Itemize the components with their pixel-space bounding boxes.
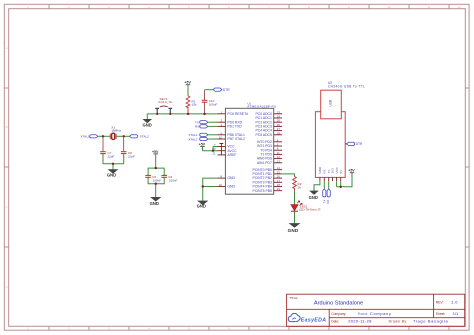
svg-text:GND: GND (143, 122, 152, 127)
svg-text:GND: GND (227, 185, 235, 189)
U1 right pin names (252, 112, 272, 193)
svg-text:22pF: 22pF (106, 154, 114, 158)
U2 bottom pin stubs (320, 177, 341, 181)
svg-text:21: 21 (212, 151, 216, 155)
title block text (289, 296, 458, 324)
svg-text:22: 22 (219, 183, 223, 187)
net port XTAL1 (mcu) (189, 133, 218, 137)
svg-text:10: 10 (219, 136, 223, 140)
svg-text:22pF: 22pF (127, 154, 135, 158)
net port XTAL1 (crystal left) (81, 135, 98, 139)
svg-text:DTR: DTR (356, 142, 363, 146)
svg-text:Your Company: Your Company (358, 311, 392, 316)
svg-text:XTAL1: XTAL1 (81, 135, 90, 139)
IC U1 body (225, 108, 273, 194)
svg-text:PD1 TXD: PD1 TXD (227, 125, 242, 129)
wire port to crystal (98, 135, 110, 137)
svg-text:PCINT5 PB5: PCINT5 PB5 (252, 189, 272, 193)
wire crystal to right port (117, 135, 130, 137)
+5V at VCC (199, 143, 206, 151)
svg-text:REV:: REV: (436, 300, 444, 304)
svg-text:10k: 10k (192, 103, 197, 107)
net port XTAL2 (crystal right) (130, 135, 150, 139)
svg-text:GND: GND (227, 176, 235, 180)
wire GND pins 8/22 (203, 178, 218, 201)
svg-text:1/1: 1/1 (453, 311, 458, 316)
wire PB1 to R2 (282, 174, 294, 177)
svg-text:Company:: Company: (331, 312, 346, 316)
svg-text:100nF: 100nF (153, 178, 162, 182)
svg-text:+5V: +5V (152, 150, 159, 154)
node U2 5V (340, 186, 342, 188)
svg-text:+5V: +5V (348, 169, 355, 173)
svg-text:DTR: DTR (223, 88, 230, 92)
connector U2 usb box (321, 90, 342, 119)
svg-text:2020-11-28: 2020-11-28 (348, 319, 372, 324)
net port XTAL2 (mcu) (189, 137, 218, 141)
wire R2 to LED1 (294, 191, 296, 205)
svg-text:AREF: AREF (227, 153, 236, 157)
net port DTR (top) (214, 88, 230, 92)
svg-text:Drawn By:: Drawn By: (389, 319, 408, 323)
svg-text:GND: GND (309, 195, 318, 200)
node R1/reset (187, 113, 189, 115)
capacitor C10 (202, 90, 218, 114)
svg-text:RX: RX (323, 169, 327, 173)
svg-text:GND: GND (107, 172, 116, 177)
wire crystal caps (103, 136, 124, 151)
svg-text:Sheet:: Sheet: (436, 312, 446, 316)
node crystal right (123, 135, 125, 137)
U1 left pin names (227, 112, 248, 189)
svg-text:1.0: 1.0 (451, 300, 458, 305)
svg-text:PB7 XTAL2: PB7 XTAL2 (227, 137, 245, 141)
capacitor C6 (161, 175, 177, 182)
svg-text:19: 19 (277, 187, 281, 191)
ground (C9/C6) (151, 198, 160, 201)
title block (287, 294, 465, 326)
svg-text:PC6 RESET#: PC6 RESET# (227, 112, 248, 116)
svg-text:CH340G USB To TTL: CH340G USB To TTL (328, 84, 365, 88)
capacitor C7 (100, 151, 114, 164)
svg-text:Arduino Standalone: Arduino Standalone (314, 301, 363, 307)
node crystal left (102, 135, 104, 137)
svg-text:AIN1 PD7: AIN1 PD7 (257, 161, 272, 165)
wire caps to gnd (103, 164, 124, 170)
ground (under U1) (198, 201, 207, 205)
resistor R2 (293, 177, 297, 191)
node loop bottom (155, 183, 157, 185)
crystal X1 (110, 126, 121, 140)
svg-text:12: 12 (457, 5, 461, 9)
svg-text:GND: GND (318, 166, 322, 174)
wire U2 rx tx (324, 181, 328, 189)
ground (crystal caps) (109, 170, 117, 173)
capacitor C9 (145, 175, 161, 182)
svg-text:PC5 ADC5: PC5 ADC5 (255, 133, 272, 137)
svg-text:RX: RX (326, 199, 330, 203)
wire decoupling loop (148, 168, 164, 197)
U2 DTR pin stub (345, 143, 346, 145)
+5V at C9/C6 (152, 150, 159, 168)
U1 right pin numbers (277, 110, 281, 191)
svg-text:Tiago Basaglia: Tiago Basaglia (413, 319, 449, 324)
svg-text:5V: 5V (339, 170, 343, 174)
capacitor C8 (121, 151, 135, 164)
svg-text:Date:: Date: (331, 319, 339, 323)
svg-text:XTAL2: XTAL2 (140, 135, 149, 139)
+5V at R1 (185, 81, 192, 96)
wire AVCC/AREF tie (220, 144, 224, 155)
svg-text:ATMEGA328P-PU: ATMEGA328P-PU (247, 105, 276, 109)
U1 right pin stubs (274, 114, 282, 191)
net port TX (U2) (322, 189, 326, 203)
ground (LED) (290, 224, 299, 228)
resistor R1 (186, 96, 190, 114)
+5V at U2 (348, 169, 355, 173)
node GND junction (202, 185, 204, 187)
LED1 (291, 201, 320, 223)
EasyEDA logo (288, 313, 326, 323)
svg-text:RX: RX (195, 125, 199, 129)
wire U2 gnd (314, 181, 320, 191)
svg-text:K4-6-6_TH: K4-6-6_TH (158, 100, 172, 104)
svg-text:B: B (6, 125, 8, 129)
svg-text:16MHz: 16MHz (111, 128, 121, 132)
wire to GND left of KEY1 (146, 114, 148, 119)
node C10/reset (203, 113, 205, 115)
svg-text:EasyEDA: EasyEDA (301, 317, 327, 323)
svg-text:TITLE:: TITLE: (289, 296, 298, 300)
connector U2 body (315, 112, 345, 178)
svg-text:GND: GND (288, 228, 299, 233)
pushbutton KEY1 (155, 97, 172, 115)
svg-text:USB: USB (328, 100, 332, 107)
svg-text:GND: GND (150, 201, 159, 206)
svg-text:LED-TH-5mm_R: LED-TH-5mm_R (299, 208, 321, 212)
U1 left pin numbers (212, 110, 222, 187)
U2 pin names (318, 166, 343, 174)
svg-text:100nF: 100nF (169, 178, 178, 182)
wire U2 5V (337, 173, 352, 187)
U1 left pin stubs (218, 114, 226, 187)
svg-text:+5V: +5V (199, 143, 206, 147)
svg-text:11: 11 (427, 5, 430, 9)
svg-text:XTAL2: XTAL2 (189, 137, 198, 141)
net port TX (195, 121, 218, 125)
wire +5V to VCC/AVCC (203, 147, 218, 151)
node loop top (155, 167, 157, 169)
svg-text:100nF: 100nF (209, 102, 218, 106)
svg-text:A: A (6, 46, 8, 50)
svg-text:+5V: +5V (185, 81, 192, 85)
ground (U2) (310, 191, 317, 194)
node caps gnd (112, 163, 114, 165)
net port RX (U2) (326, 189, 330, 204)
wire C10 to DTR port (205, 89, 214, 91)
node VCC junction (212, 150, 214, 152)
svg-text:GND: GND (197, 204, 206, 209)
wire RESET net (147, 113, 217, 115)
svg-text:13: 13 (277, 159, 281, 163)
svg-text:28: 28 (277, 131, 281, 135)
svg-text:1k: 1k (298, 186, 302, 190)
net port RX (195, 125, 218, 129)
svg-text:10: 10 (387, 5, 391, 9)
net port DTR (U2) (347, 142, 363, 146)
ground (KEY1) (144, 119, 151, 122)
